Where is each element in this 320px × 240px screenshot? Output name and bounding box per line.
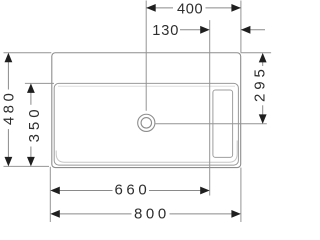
svg-text:400: 400 — [177, 1, 203, 17]
dimension 130 top — [152, 23, 265, 39]
dimension 800 bottom — [50, 206, 241, 223]
dimension 400 top — [146, 1, 241, 17]
drain outer circle — [138, 114, 155, 131]
extension line right edge top — [240, 1, 242, 53]
bowl faint top line — [58, 85, 235, 87]
extension line 660/130 boundary — [209, 20, 211, 195]
extension line top edge right — [241, 52, 271, 54]
extension line top edge left — [4, 52, 52, 54]
dimension 660 bottom — [50, 181, 209, 198]
extension line bottom left — [4, 165, 50, 167]
svg-text:660: 660 — [114, 181, 150, 198]
basin outer edge — [52, 53, 241, 168]
dimension 480 left — [0, 53, 17, 167]
drain inner circle — [141, 118, 152, 129]
shelf recess — [213, 90, 233, 157]
svg-text:350: 350 — [26, 105, 43, 142]
svg-text:295: 295 — [251, 65, 268, 102]
dimension 350 left — [26, 83, 43, 166]
extension line right edge bottom — [240, 168, 242, 223]
extension line drain horizontal right — [155, 123, 266, 125]
extension line left edge bottom — [49, 167, 51, 223]
svg-text:800: 800 — [134, 206, 170, 222]
basin rim opening — [54, 83, 238, 165]
extension line bowl top left — [25, 82, 54, 84]
svg-text:480: 480 — [0, 90, 17, 126]
svg-text:130: 130 — [152, 23, 179, 39]
bowl inner faint contour — [56, 141, 237, 163]
extension line drain centerline vertical — [145, 1, 147, 111]
dimension 295 right — [251, 53, 268, 124]
